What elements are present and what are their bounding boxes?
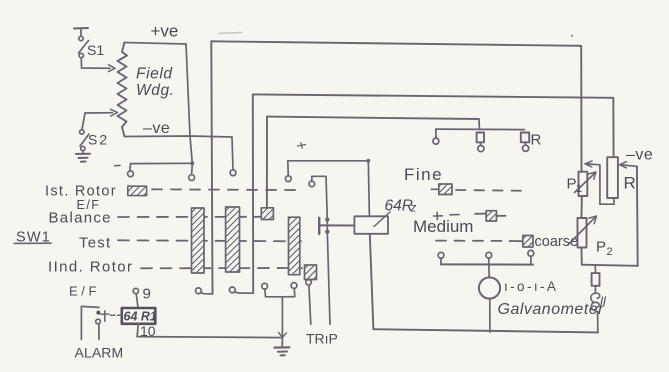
wire ell box to P2 bottom rail <box>594 265 596 273</box>
alarm contact assembly <box>81 306 122 339</box>
rail1 vertical drop <box>211 41 212 294</box>
dashed row Ist rotor E/F <box>152 188 302 191</box>
relay contact square right <box>521 133 529 143</box>
svg-text:Medium: Medium <box>413 217 473 236</box>
svg-text:IInd. Rotor: IInd. Rotor <box>48 259 133 276</box>
svg-text:R: R <box>624 174 636 193</box>
wire c4 stem to ground bus <box>282 288 294 296</box>
pointer line from label to coil <box>374 212 390 227</box>
P1 wiper arrow <box>575 174 595 193</box>
wire P2 bottom <box>580 248 582 265</box>
wire right riser to -ve arrow <box>636 166 639 265</box>
switch S2 <box>80 109 118 150</box>
rail2 horizontal <box>253 94 614 97</box>
junction dot relay lower <box>325 230 329 234</box>
junction dot <box>190 161 194 165</box>
wire rail2 drop to R <box>612 98 614 157</box>
bottom rail wire <box>373 329 598 332</box>
wire 64R1 bottom to ground bus <box>137 324 138 337</box>
wire c3 stem to ground bus <box>265 289 283 297</box>
wire R bottom U to P1 top <box>587 164 614 204</box>
svg-text:+ve: +ve <box>151 22 179 41</box>
wire rail1 drop to P1 <box>580 46 582 172</box>
resistor ell box <box>592 273 600 286</box>
dashed row Test <box>118 240 301 241</box>
wire terminal 9 to 64R1 <box>136 294 138 308</box>
svg-text:ALARM: ALARM <box>75 345 124 361</box>
dashed row continues after Fine contact <box>456 189 527 192</box>
svg-text:P: P <box>567 176 577 193</box>
wire field box right edge down to node <box>186 44 192 163</box>
svg-text:Galvanometer: Galvanometer <box>498 301 605 318</box>
svg-text:Wdg.: Wdg. <box>136 82 175 99</box>
resistor Field Wdg zigzag <box>118 43 128 137</box>
ground below S2 <box>76 151 90 162</box>
wire P2 bottom rail <box>582 265 638 266</box>
switch bar 2 (hatched) <box>226 207 240 272</box>
contact t5 <box>309 181 315 187</box>
wire left of Fine contact <box>431 188 438 190</box>
medium row left mark <box>434 212 460 219</box>
Medium contact square (hatched) <box>486 211 496 221</box>
wire 64Rz bottom down to bottom rail <box>370 234 374 329</box>
P2 wiper arrow <box>568 218 595 245</box>
contact c4 <box>291 283 297 289</box>
contact c1 <box>196 288 202 294</box>
wire ground drop <box>281 297 283 338</box>
switch bar 3 (hatched) <box>289 217 300 275</box>
wire galvanometer to bottom rail <box>489 299 491 332</box>
balance row contact square (hatched) <box>261 208 273 220</box>
wire c5 down to TRIP <box>309 285 311 324</box>
wire -ve rail from box bottom <box>125 136 234 170</box>
svg-text:E / F: E / F <box>69 284 97 299</box>
coarse contact square (hatched) <box>523 236 533 248</box>
wire P1 to P2 <box>580 196 583 218</box>
ground symbol <box>274 338 289 356</box>
R contacts bar <box>436 128 525 131</box>
contact t2 <box>189 175 195 181</box>
svg-text:R: R <box>531 132 542 149</box>
svg-text:Field: Field <box>136 66 173 83</box>
contact c2 <box>229 287 235 293</box>
svg-text:64R: 64R <box>385 198 413 215</box>
wire riser from bottom rail to ell coil <box>597 312 599 333</box>
wire relay vertical down to TRIP <box>326 176 330 324</box>
dashed row coarse <box>436 240 506 242</box>
dashed row Balance <box>118 216 260 218</box>
scribble mark <box>298 143 306 148</box>
svg-text:64 R1: 64 R1 <box>124 310 157 324</box>
speck <box>571 35 573 37</box>
ell coil spiral <box>591 293 600 311</box>
contact circle middle <box>478 146 484 152</box>
svg-text:P: P <box>596 239 606 256</box>
wire t4 stem to rail4 <box>287 161 290 176</box>
wire relay contact to 64Rz coil <box>319 224 354 226</box>
wire t5 to relay vertical <box>312 176 326 181</box>
dash left of Medium contact <box>475 213 486 215</box>
rail1 +ve horizontal <box>211 41 581 46</box>
wire L to bottom contact c1 <box>201 293 213 294</box>
relay moving contact bar <box>318 218 320 234</box>
relay contact square middle <box>477 133 484 143</box>
svg-text:9: 9 <box>143 286 151 303</box>
relay coil 64R1 box <box>122 308 156 324</box>
faint smudge <box>219 33 241 34</box>
contact circle right <box>523 145 529 151</box>
contact t4 <box>285 176 291 182</box>
svg-text:1: 1 <box>576 183 582 195</box>
switch bar 1 (hatched) <box>192 208 205 273</box>
svg-text:Balance: Balance <box>49 210 112 227</box>
svg-text:ll: ll <box>600 294 607 309</box>
svg-text:Test: Test <box>79 235 111 252</box>
pen skip dash <box>115 164 120 166</box>
svg-text:S1: S1 <box>87 42 104 58</box>
galvanometer contact bar <box>441 263 533 265</box>
terminal 9 <box>133 288 138 293</box>
wire -ve arrow into R <box>621 165 637 167</box>
IInd row contact square (hatched) <box>305 265 317 280</box>
svg-text:–ve: –ve <box>626 147 653 164</box>
wire L to bottom contact c2 <box>235 292 254 293</box>
wire bar to galvanometer <box>488 265 490 278</box>
contact pad Ist rotor (hatched) <box>128 186 147 195</box>
wire S1 to field winding tap <box>81 58 115 72</box>
contact circle left <box>433 138 439 144</box>
wire node to Ist rotor contact t1 <box>130 163 193 171</box>
svg-text:TRıP: TRıP <box>306 331 338 347</box>
arrow barb at ground junction <box>279 333 287 338</box>
wire rail3 stem down to R contact bar <box>478 119 481 129</box>
rail4 wire to 64Rz <box>288 160 369 162</box>
galvanometer G <box>479 277 500 298</box>
contact t3 <box>230 170 236 176</box>
svg-text:–ve: –ve <box>143 120 170 137</box>
contact t1 <box>128 171 134 177</box>
svg-text:Fine: Fine <box>404 165 443 184</box>
wire stem to contact t2 <box>191 163 194 174</box>
contact c3 <box>262 283 268 289</box>
switch S1 <box>74 28 89 58</box>
svg-text:2: 2 <box>607 246 613 258</box>
resistor R right <box>607 157 618 198</box>
relay coil 64Rz box <box>354 216 388 234</box>
svg-text:z: z <box>410 203 417 215</box>
SW1 underline <box>14 242 51 244</box>
wire into coarse contact <box>510 240 523 242</box>
dashed row IInd rotor <box>141 267 302 269</box>
svg-text:10: 10 <box>140 323 156 339</box>
contact c5 <box>306 280 311 285</box>
junction dot relay upper <box>325 217 329 221</box>
junction dot rail4 <box>366 159 370 163</box>
svg-text:S2: S2 <box>88 132 109 148</box>
rail2 vertical drop <box>252 94 254 293</box>
svg-text:ı-o-ı-A: ı-o-ı-A <box>504 279 558 294</box>
wire ground bus from 64R1 <box>137 337 282 338</box>
wire right of Medium contact <box>497 215 506 217</box>
rail3 vertical drop to balance contact <box>266 117 268 208</box>
potentiometer P1 <box>579 172 588 196</box>
rail3 horizontal <box>267 117 479 119</box>
Fine contact square (hatched) <box>439 184 452 195</box>
contact stem left <box>435 129 437 138</box>
wire field box top <box>125 43 187 45</box>
wire spiral to ell resistor <box>594 286 596 293</box>
wire rail4 down into 64Rz coil <box>368 161 369 217</box>
potentiometer P2 <box>578 218 587 248</box>
arrowhead into P1 top <box>585 161 592 167</box>
galvanometer input contacts <box>438 250 534 264</box>
